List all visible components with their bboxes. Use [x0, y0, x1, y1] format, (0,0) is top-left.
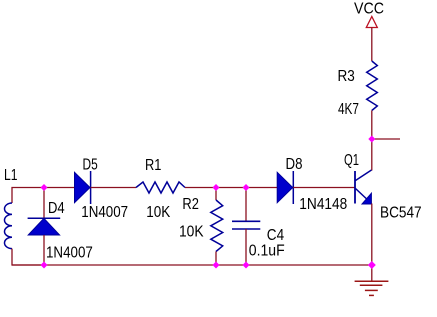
svg-text:0.1uF: 0.1uF [249, 242, 285, 259]
wire C4 top lead [245, 188, 247, 222]
inductor L1 [4, 203, 12, 249]
wire bottom rail [12, 264, 372, 266]
wire D8 to Q1 base [293, 187, 355, 189]
svg-text:BC547: BC547 [380, 204, 422, 221]
wire R2 node to C4 node [216, 187, 246, 189]
svg-text:R1: R1 [145, 157, 161, 174]
svg-text:R3: R3 [338, 68, 355, 85]
wire L1 top lead [12, 188, 44, 204]
wire collector node stub right [372, 138, 400, 140]
junction ground node [368, 261, 376, 269]
junction node bottom of C4 [243, 262, 250, 269]
svg-text:R2: R2 [182, 196, 199, 213]
junction node top of C4 [243, 184, 250, 191]
junction node bottom of R2 [213, 262, 220, 269]
resistor R3 [367, 61, 378, 111]
svg-text:1N4007: 1N4007 [81, 204, 128, 221]
wire D4 node to D5 [44, 187, 75, 189]
svg-text:D8: D8 [286, 156, 303, 173]
svg-text:10K: 10K [146, 204, 171, 221]
diode D5 [75, 171, 91, 204]
resistor R1 [136, 182, 185, 193]
junction node top of D4 [41, 184, 48, 191]
wire L1 bottom lead [12, 249, 44, 265]
junction node top of R2 [213, 184, 220, 191]
svg-text:D5: D5 [83, 156, 98, 173]
svg-text:1N4148: 1N4148 [299, 196, 347, 213]
wire R1 to R2 node [185, 187, 216, 189]
wire ground stub [371, 265, 373, 281]
capacitor C4 [232, 221, 260, 229]
wire R2 top lead [215, 188, 217, 201]
wire Q1 emitter to ground rail [371, 204, 373, 266]
wire R2 bottom lead [215, 252, 217, 266]
junction collector node [368, 136, 375, 143]
svg-text:1N4007: 1N4007 [46, 245, 93, 262]
diode D8 [277, 171, 293, 204]
svg-text:Q1: Q1 [344, 152, 359, 169]
wire D4 bottom lead [43, 235, 45, 265]
wire collector node to Q1 [371, 139, 373, 171]
junction node bottom of D4 [41, 262, 48, 269]
svg-text:10K: 10K [179, 224, 204, 241]
wire D5 to R1 [91, 187, 136, 189]
svg-text:VCC: VCC [354, 0, 384, 17]
diode D4 [28, 218, 61, 235]
resistor R2 [211, 200, 223, 252]
wire C4 bottom lead [245, 229, 247, 265]
wire C4 node to D8 [246, 187, 277, 189]
ground [355, 281, 389, 295]
wire R3 to collector node [371, 111, 373, 140]
power symbol VCC [366, 17, 377, 28]
transistor Q1 [355, 170, 372, 204]
svg-text:D4: D4 [48, 200, 65, 217]
svg-text:L1: L1 [4, 167, 18, 184]
svg-text:4K7: 4K7 [338, 101, 359, 118]
wire D4 top lead [43, 188, 45, 219]
wire VCC to R3 [371, 28, 373, 62]
